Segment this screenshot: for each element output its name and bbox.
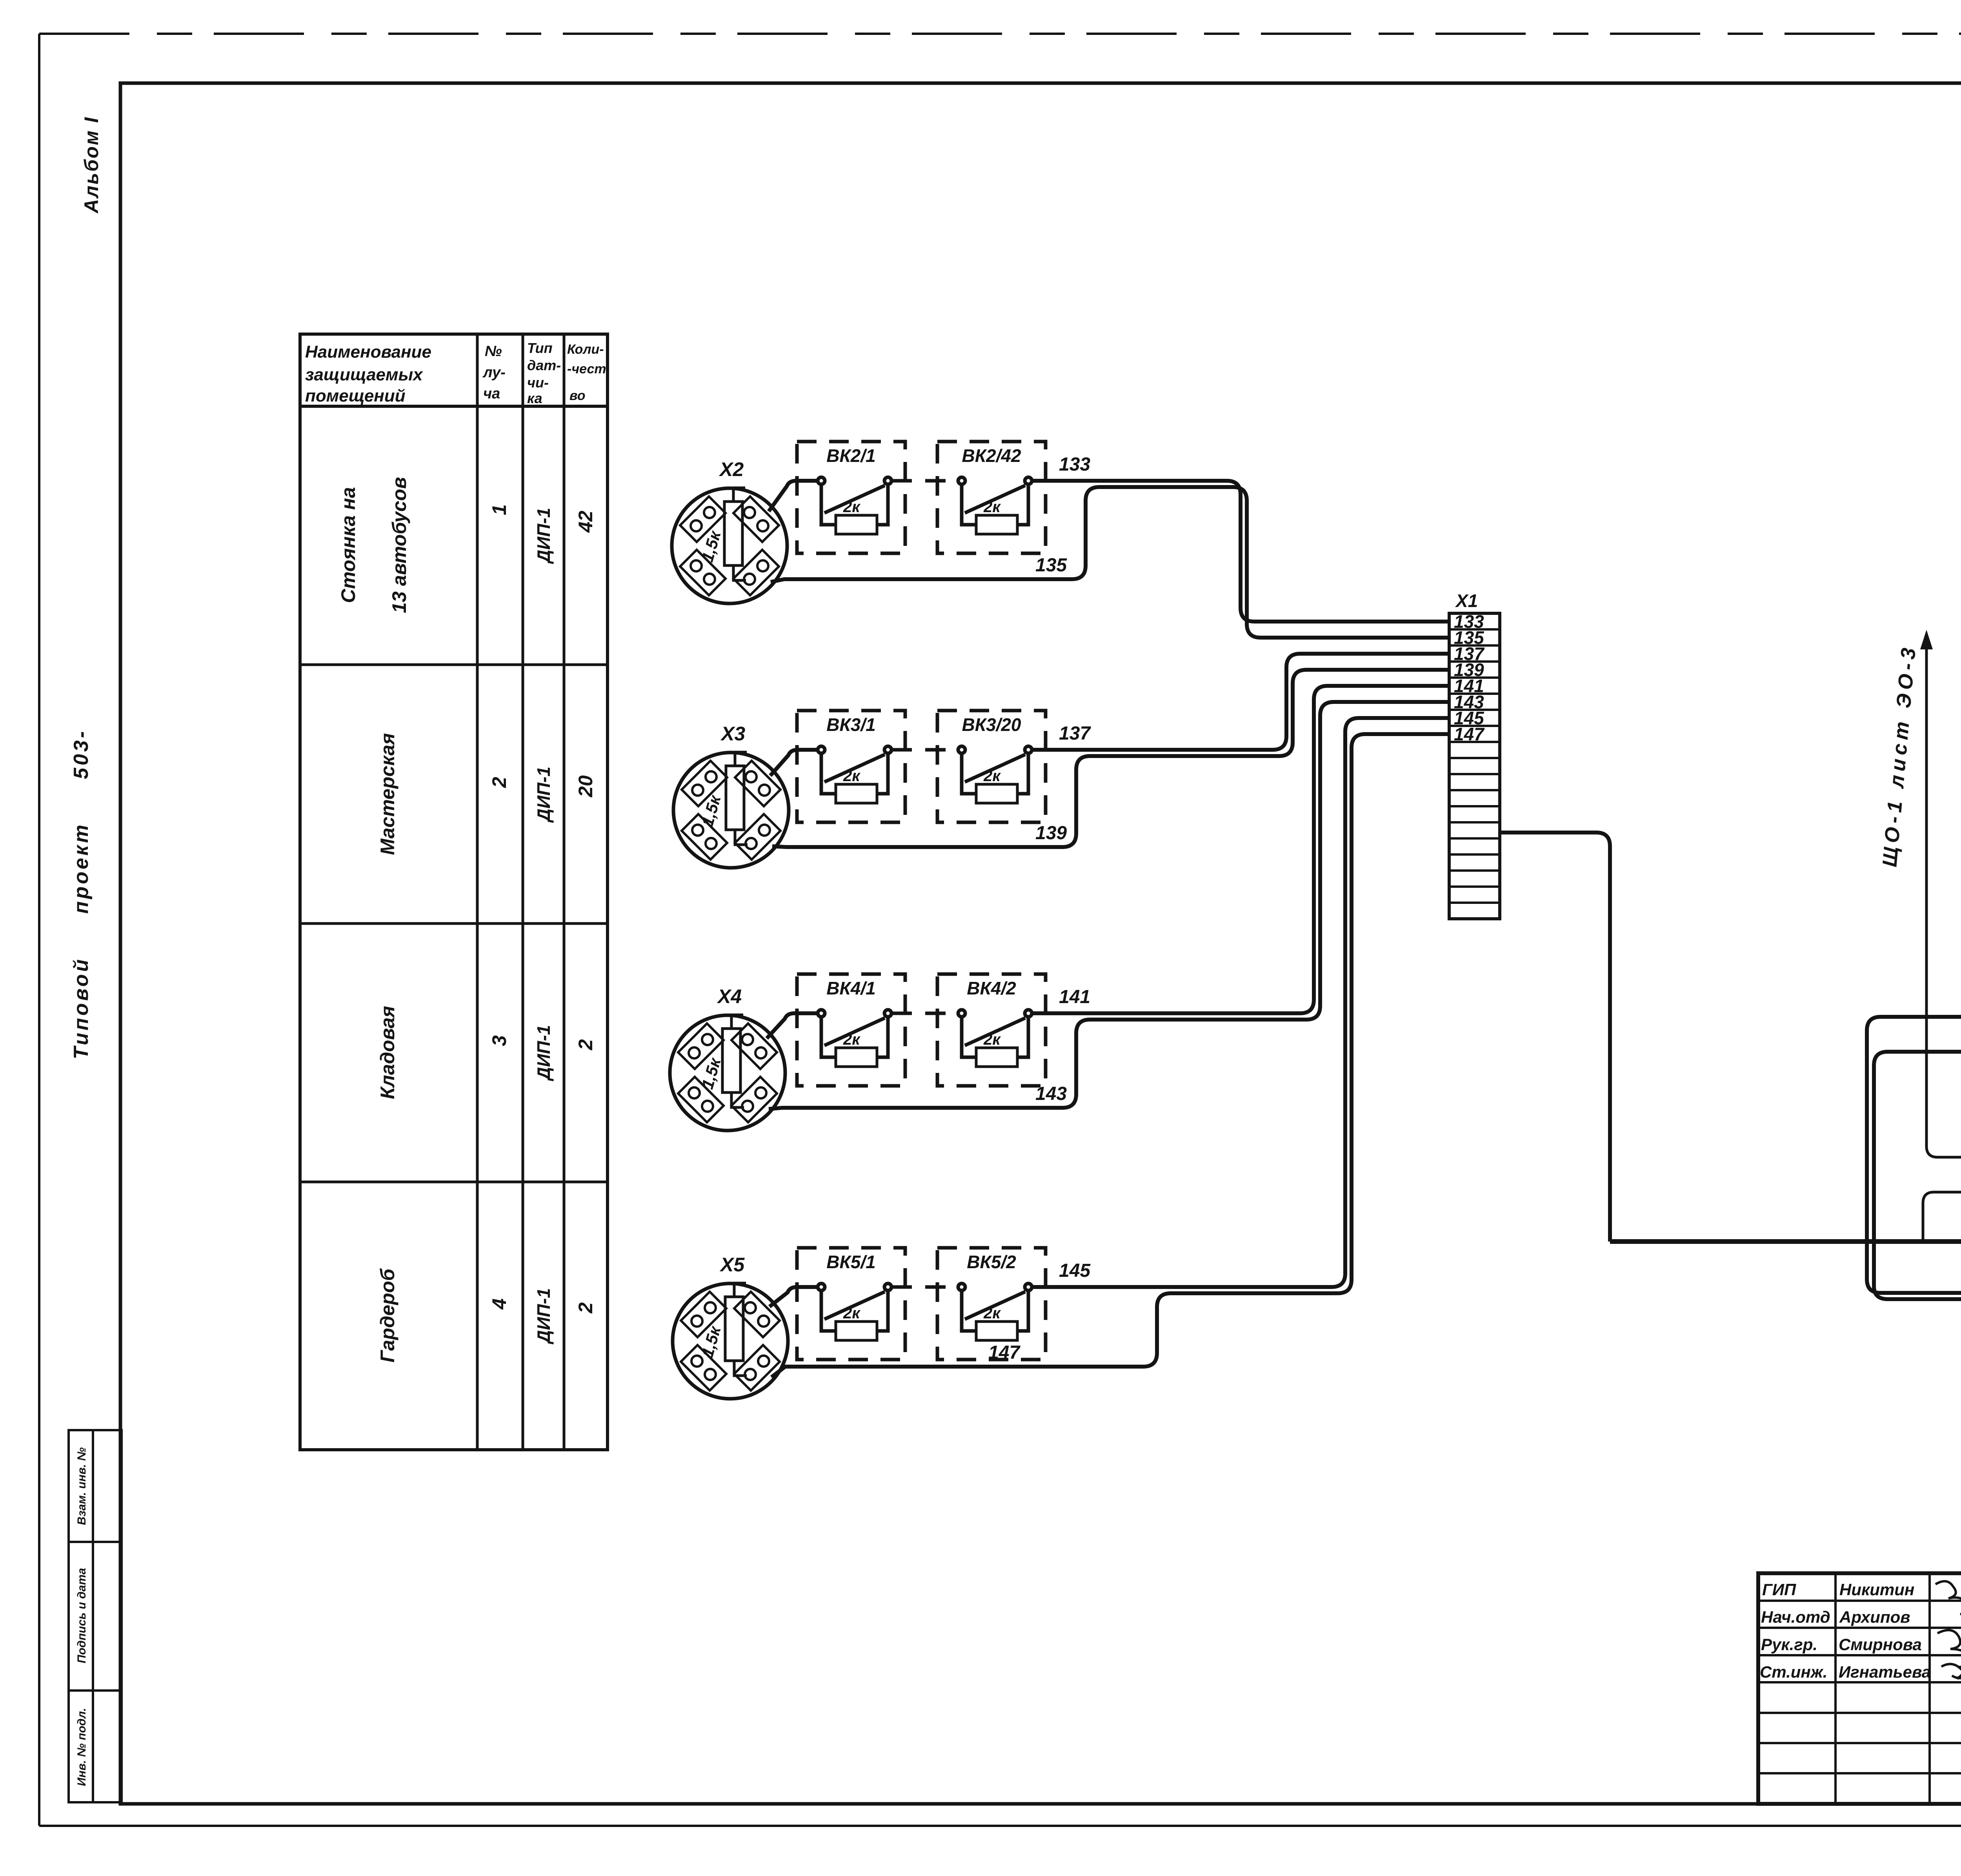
svg-text:Альбом I: Альбом I (80, 116, 102, 214)
svg-text:2к: 2к (983, 1031, 1001, 1048)
detector box ВК5/2 (dashed) (937, 1248, 1046, 1360)
svg-text:141: 141 (1059, 987, 1090, 1007)
svg-text:чи-: чи- (527, 374, 549, 391)
resistor 2к of ВК2/1 (836, 515, 877, 534)
resistor 2к of ВК4/1 (836, 1048, 877, 1067)
contact ВК5/1 (818, 1283, 891, 1331)
title block frame (1758, 1573, 1961, 1804)
detector box ВК5/1 (dashed) (797, 1248, 905, 1360)
svg-text:Х1: Х1 (1455, 591, 1478, 611)
svg-text:-чест: -чест (567, 362, 606, 376)
svg-text:№: № (485, 343, 502, 360)
wire 133 (1032, 481, 1449, 622)
svg-text:147: 147 (988, 1342, 1021, 1363)
detector box ВК2/1 (dashed) (797, 442, 905, 553)
room row: Гардероб (377, 1268, 597, 1362)
svg-text:2к: 2к (843, 1031, 860, 1048)
wire 137 (1032, 654, 1449, 750)
svg-text:Кладовая: Кладовая (377, 1006, 398, 1099)
svg-text:42: 42 (575, 511, 597, 533)
wire from Х5 to ВК5/1 (769, 1287, 818, 1307)
svg-text:помещений: помещений (305, 386, 406, 405)
resistor 2к of ВК5/1 (836, 1322, 877, 1340)
resistor 2к of ВК2/42 (976, 515, 1017, 534)
svg-text:Никитин: Никитин (1839, 1580, 1914, 1599)
wire row24 (+24В) to G1 (1874, 1052, 1961, 1344)
svg-text:2к: 2к (983, 498, 1001, 516)
svg-text:ДИП-1: ДИП-1 (533, 1025, 554, 1082)
svg-text:Наименование: Наименование (305, 342, 431, 362)
svg-text:Мастерская: Мастерская (377, 733, 398, 855)
resistor 2к of ВК3/1 (836, 784, 877, 803)
svg-text:Ст.инж.: Ст.инж. (1760, 1663, 1827, 1681)
svg-text:145: 145 (1059, 1260, 1091, 1281)
wire from Х3 to ВК3/1 (770, 750, 818, 776)
svg-text:ДИП-1: ДИП-1 (533, 767, 554, 823)
wire 135 (771, 487, 1449, 638)
outer border left (38, 34, 40, 1826)
svg-text:ка: ка (527, 390, 542, 406)
wire 147 (771, 734, 1449, 1377)
contact ВК3/20 (958, 746, 1032, 794)
svg-text:4: 4 (488, 1298, 510, 1310)
wire 143 (769, 702, 1449, 1109)
svg-text:143: 143 (1035, 1083, 1067, 1104)
svg-text:2к: 2к (983, 1305, 1001, 1322)
svg-text:1: 1 (488, 504, 510, 515)
svg-text:137: 137 (1059, 723, 1091, 744)
wire ВК3/1 to ВК3/20 (dashed) (891, 748, 958, 752)
wire 139 (772, 670, 1449, 847)
svg-text:ВК5/2: ВК5/2 (967, 1252, 1016, 1272)
svg-text:Х3: Х3 (720, 723, 745, 745)
svg-text:Нач.отд: Нач.отд (1761, 1608, 1830, 1626)
svg-text:3: 3 (488, 1035, 510, 1046)
room row: Мастерская (377, 733, 597, 855)
margin strip (Взам/Подпись/Инв) (69, 1430, 122, 1802)
outer border top (dashed) (39, 33, 1961, 35)
detector Х4 (670, 1015, 785, 1131)
svg-text:во: во (569, 388, 585, 403)
detector box ВК3/1 (dashed) (797, 711, 905, 822)
svg-text:лу-: лу- (482, 364, 506, 381)
svg-text:133: 133 (1059, 454, 1090, 475)
svg-text:ча: ча (483, 385, 500, 402)
svg-text:ВК4/2: ВК4/2 (967, 978, 1016, 998)
contact ВК2/42 (958, 477, 1032, 525)
svg-text:2к: 2к (843, 498, 860, 516)
svg-text:Рук.гр.: Рук.гр. (1761, 1635, 1817, 1654)
svg-text:Х2: Х2 (719, 458, 744, 480)
svg-text:2к: 2к (843, 767, 860, 785)
svg-text:Стоянка на: Стоянка на (337, 487, 359, 603)
svg-text:20: 20 (575, 775, 597, 798)
Х1 row labels 133-147 (1454, 611, 1485, 744)
wire ВК2/1 to ВК2/42 (dashed) (891, 479, 958, 483)
svg-text:135: 135 (1035, 555, 1067, 576)
svg-text:139: 139 (1035, 823, 1067, 843)
svg-text:ВК4/1: ВК4/1 (826, 978, 875, 998)
svg-text:Архипов: Архипов (1839, 1608, 1910, 1626)
room table header (305, 340, 606, 406)
svg-text:Х5: Х5 (719, 1254, 745, 1276)
svg-text:Х4: Х4 (717, 985, 742, 1007)
svg-text:защищаемых: защищаемых (305, 365, 423, 384)
220V bus wire (1610, 1239, 1961, 1244)
wire Х1 output to bus (1500, 833, 1610, 1242)
detector Х2 (672, 488, 787, 604)
contact ВК5/2 (958, 1283, 1032, 1331)
detector Х3 (673, 752, 789, 868)
title block grid (1758, 1573, 1961, 1804)
svg-text:Инв. № подл.: Инв. № подл. (75, 1708, 88, 1786)
svg-text:Типовой проект 503-: Типовой проект 503- (70, 729, 93, 1060)
svg-text:Коли-: Коли- (567, 342, 604, 357)
room row: Кладовая (377, 1006, 597, 1099)
svg-text:2: 2 (575, 1039, 597, 1051)
wire from Х2 to ВК2/1 (769, 481, 818, 511)
resistor 2к of ВК4/2 (976, 1048, 1017, 1067)
detector box ВК4/1 (dashed) (797, 974, 905, 1086)
detector Х5 (673, 1283, 788, 1399)
svg-text:2: 2 (488, 777, 510, 788)
svg-text:147: 147 (1454, 724, 1485, 744)
room row 1: Стоянка на 13 автобусов (337, 477, 597, 613)
terminal strip Х1 (1449, 613, 1500, 919)
svg-text:дат-: дат- (527, 357, 561, 373)
room table frame (300, 334, 608, 1450)
svg-text:ВК2/1: ВК2/1 (826, 445, 875, 466)
svg-text:ДИП-1: ДИП-1 (533, 1288, 554, 1345)
outer border bottom (39, 1825, 1961, 1827)
wire ВК5/1 to ВК5/2 (dashed) (891, 1285, 958, 1289)
detector box ВК4/2 (dashed) (937, 974, 1046, 1086)
svg-text:2к: 2к (843, 1305, 860, 1322)
wire 145 (1032, 718, 1449, 1287)
contact ВК3/1 (818, 746, 891, 794)
detector box ВК2/42 (dashed) (937, 442, 1046, 553)
svg-text:Игнатьева: Игнатьева (1839, 1663, 1931, 1681)
contact ВК4/1 (818, 1010, 891, 1057)
svg-text:ВК3/1: ВК3/1 (826, 714, 875, 735)
wire ВК4/1 to ВК4/2 (dashed) (891, 1012, 958, 1015)
wire from Х4 to ВК4/1 (767, 1013, 818, 1038)
svg-text:ДИП-1: ДИП-1 (533, 508, 554, 564)
wire row27 to ЩО-1 with arrow (1926, 648, 1961, 1157)
signatures (1760, 1580, 1931, 1681)
wire 141 (1032, 686, 1449, 1013)
svg-text:Подпись и дата: Подпись и дата (75, 1568, 88, 1663)
svg-text:ГИП: ГИП (1762, 1580, 1796, 1599)
svg-text:Тип: Тип (527, 340, 553, 356)
svg-text:Взам. инв. №: Взам. инв. № (75, 1447, 88, 1525)
resistor 2к of ВК3/20 (976, 784, 1017, 803)
svg-text:Смирнова: Смирнова (1839, 1635, 1922, 1654)
wire row23 (-24В) to G1 (1867, 1017, 1961, 1293)
resistor 2к of ВК5/2 (976, 1322, 1017, 1340)
svg-text:2: 2 (575, 1302, 597, 1314)
wire row28 to bus (1923, 1192, 1961, 1242)
svg-text:2к: 2к (983, 767, 1001, 785)
signature scribbles (1936, 1581, 1961, 1684)
svg-text:ВК5/1: ВК5/1 (826, 1252, 875, 1272)
contact ВК2/1 (818, 477, 891, 525)
svg-text:13 автобусов: 13 автобусов (388, 477, 410, 613)
svg-text:ВК3/20: ВК3/20 (962, 714, 1021, 735)
svg-text:ВК2/42: ВК2/42 (962, 445, 1021, 466)
contact ВК4/2 (958, 1010, 1032, 1057)
detector box ВК3/20 (dashed) (937, 711, 1046, 822)
svg-text:Гардероб: Гардероб (377, 1268, 398, 1362)
